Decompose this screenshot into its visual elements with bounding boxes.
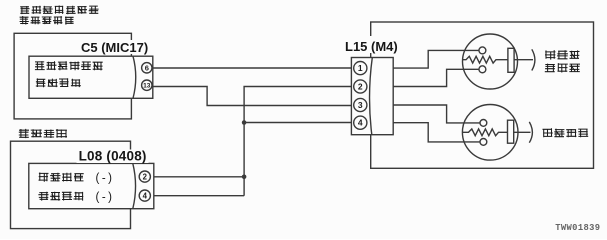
svg-text:C5 (MIC17): C5 (MIC17)	[81, 40, 148, 55]
label: auto deceleration switch (inside C5)	[35, 61, 103, 70]
junction dot B	[242, 175, 247, 180]
connector C5 divider curve	[133, 56, 136, 98]
wire pin6-C5 to pin1-L15	[153, 67, 352, 69]
pin 13 of C5	[142, 80, 152, 90]
wire pin2-L15 to switch1 bottom contact	[393, 69, 479, 86]
switch S1 contact top	[479, 47, 486, 54]
svg-text:L08 (0408): L08 (0408)	[79, 149, 147, 164]
switch S2 contact bottom	[480, 139, 487, 146]
connector label L15 (M4)	[344, 36, 401, 53]
label text: transmission and joystick steering controller line 1	[20, 6, 98, 15]
wire pin3-L15 to switch2 top contact	[393, 105, 480, 123]
pin 4 of L15	[354, 116, 367, 129]
pin 3 of L15	[354, 98, 367, 111]
junction dot A	[242, 120, 247, 125]
label: main monitor	[19, 129, 67, 138]
label: system network row 2	[38, 192, 83, 201]
connector C5 (MIC17) inner box	[29, 56, 153, 98]
wire pin13-C5 to pin3-L15	[153, 87, 352, 106]
pin 1 of L15	[354, 62, 367, 75]
pin 2 of L15	[354, 80, 367, 93]
connector L15 box	[351, 58, 393, 135]
switch S2 contact top	[480, 120, 487, 127]
connector label L08 (0408)	[77, 150, 149, 164]
svg-text:1: 1	[358, 63, 363, 73]
main monitor outer box	[11, 141, 131, 228]
connector L08 inner box	[29, 163, 154, 208]
svg-text:3: 3	[358, 100, 363, 110]
switch S2 actuator line	[514, 131, 531, 133]
svg-text:2: 2	[143, 172, 148, 181]
big switch enclosure box	[371, 22, 594, 168]
svg-text:4: 4	[143, 191, 148, 200]
switch S1 contact bottom	[479, 66, 486, 73]
label: auto deceleration switch line 2 (right)	[545, 63, 580, 72]
svg-text:L15 (M4): L15 (M4)	[345, 39, 398, 54]
wire pin2-L08 to bus	[154, 176, 244, 178]
connector label C5 (MIC17)	[78, 40, 151, 54]
controller outer box (transmission/joystick steering controller)	[14, 33, 131, 119]
pin 4 of L08	[139, 190, 150, 201]
svg-text:(-): (-)	[96, 192, 115, 204]
label text line 2	[20, 16, 74, 25]
pin 6 of C5	[142, 63, 152, 73]
label: hold switch (inside C5)	[36, 78, 81, 87]
wire bus vertical to pin2-L15	[244, 87, 351, 196]
switch S2 actuator arc	[529, 122, 532, 143]
switch S1 actuator arc	[532, 49, 535, 70]
switch S2 resistor zigzag	[462, 129, 507, 136]
connector L08 divider curve	[133, 163, 136, 208]
svg-text:(-): (-)	[96, 173, 115, 185]
switch S1 resistor zigzag	[463, 56, 508, 63]
wire pin4-L15 to switch2 bottom contact	[393, 123, 480, 142]
label: auto deceleration switch line 1 (right)	[545, 50, 580, 60]
switch S1 actuator line	[514, 59, 533, 61]
switch S1 auto-deceleration circle	[463, 34, 518, 89]
pin 2 of L08	[139, 171, 150, 182]
label: system network row 1	[39, 173, 84, 182]
switch S2 plate rectangle	[508, 120, 514, 143]
svg-text:TWW01839: TWW01839	[555, 223, 600, 233]
svg-text:4: 4	[358, 118, 363, 128]
svg-text:6: 6	[145, 63, 149, 72]
wire pin4-L08 to bus	[154, 195, 244, 197]
svg-text:13: 13	[143, 83, 151, 90]
label: hold switch (right)	[543, 128, 589, 137]
switch S2 hold-switch circle	[462, 105, 518, 161]
switch S1 plate rectangle	[508, 48, 514, 72]
connector L15 divider curve	[370, 58, 373, 135]
wire pin1-L15 to switch1 top contact	[393, 50, 479, 68]
svg-text:2: 2	[358, 82, 363, 92]
wire bus to pin4-L15	[244, 122, 351, 124]
